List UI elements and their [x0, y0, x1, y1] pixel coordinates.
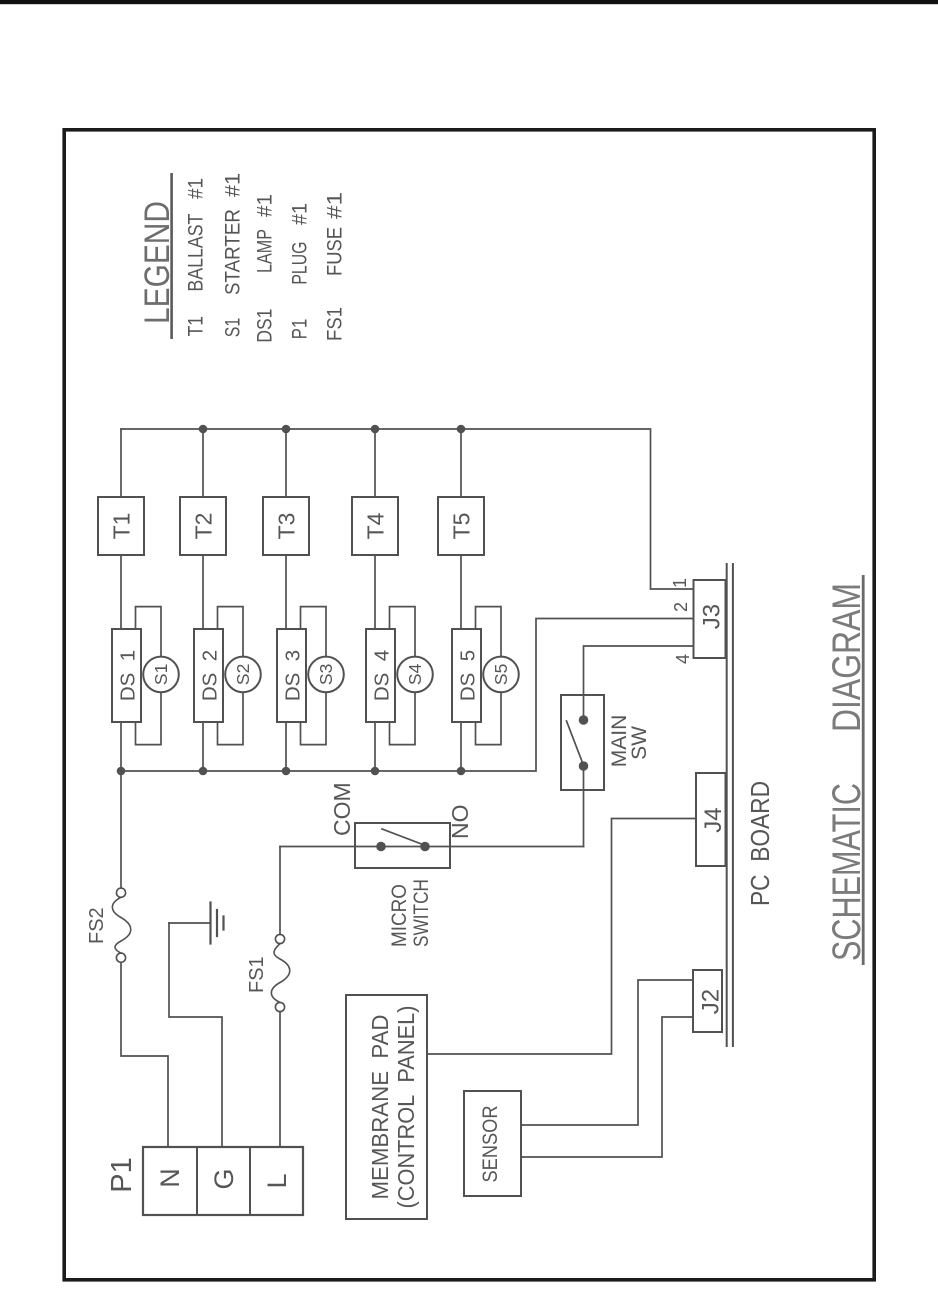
- junction left bus: [199, 767, 208, 776]
- scanner black bar: [0, 0, 938, 4]
- main sw contact left: [579, 761, 589, 771]
- svg-text:#1: #1: [289, 203, 312, 225]
- svg-text:DS 3: DS 3: [282, 650, 305, 701]
- svg-text:#1: #1: [185, 178, 208, 199]
- svg-text:SENSOR: SENSOR: [479, 1106, 502, 1183]
- svg-text:L: L: [262, 1173, 292, 1188]
- P1 divider N/G: [196, 1147, 198, 1215]
- svg-text:T1: T1: [185, 316, 208, 336]
- main sw contact right: [579, 715, 589, 725]
- svg-text:S3: S3: [316, 664, 336, 685]
- starter bracket right S2: [218, 607, 244, 657]
- svg-text:S1: S1: [151, 664, 171, 685]
- svg-text:FS1: FS1: [246, 956, 268, 993]
- junction left bus: [371, 767, 380, 776]
- junction left bus: [282, 767, 291, 776]
- membrane pad box: [346, 995, 427, 1219]
- wire branch row 4: [374, 429, 376, 771]
- wire bus to FS2: [120, 771, 122, 888]
- svg-text:SW: SW: [628, 726, 651, 760]
- svg-text:FUSE: FUSE: [324, 227, 347, 276]
- svg-text:2: 2: [671, 602, 691, 612]
- svg-text:STARTER: STARTER: [222, 209, 245, 295]
- svg-text:T4: T4: [363, 512, 389, 539]
- svg-text:MEMBRANE PAD: MEMBRANE PAD: [367, 1015, 393, 1200]
- svg-text:FS2: FS2: [86, 907, 108, 944]
- svg-text:BALLAST: BALLAST: [185, 213, 208, 291]
- svg-text:SWITCH: SWITCH: [410, 879, 433, 947]
- micro switch contact NO: [420, 842, 430, 852]
- svg-text:COM: COM: [329, 782, 355, 836]
- svg-text:DS1: DS1: [254, 309, 277, 343]
- starter bracket right S4: [390, 607, 416, 657]
- junction left bus: [457, 767, 466, 776]
- wire FS2 to P1-N: [121, 962, 168, 1147]
- svg-text:S1: S1: [222, 318, 245, 338]
- wire branch row 3: [285, 429, 287, 771]
- svg-text:DS 2: DS 2: [199, 650, 222, 701]
- lamp DS4: [366, 629, 395, 722]
- left bus to J3 pin 2: [121, 619, 694, 772]
- ballast T2: [180, 497, 226, 555]
- starter S1 circle: [143, 657, 179, 693]
- starter bracket left S2: [218, 692, 244, 744]
- junction right bus: [199, 425, 208, 434]
- wire branch row 1: [120, 429, 122, 771]
- starter bracket right S3: [301, 607, 327, 657]
- starter bracket right S1: [136, 607, 162, 657]
- svg-text:DS 1: DS 1: [117, 650, 140, 701]
- P1 divider G/L: [249, 1147, 251, 1215]
- svg-text:PC BOARD: PC BOARD: [745, 781, 775, 906]
- svg-text:T5: T5: [449, 513, 475, 540]
- micro switch box: [355, 823, 450, 868]
- starter bracket left S5: [476, 692, 502, 744]
- wire P1-G to ground: [169, 923, 222, 1147]
- plug P1 terminal block: [143, 1147, 303, 1215]
- junction left bus: [117, 767, 126, 776]
- starter bracket left S1: [136, 692, 162, 744]
- starter S4 circle: [397, 657, 433, 693]
- svg-text:T3: T3: [274, 513, 300, 540]
- svg-text:LAMP: LAMP: [254, 229, 277, 273]
- legend underline: [170, 173, 173, 339]
- ballast T4: [352, 497, 398, 555]
- svg-text:DS 5: DS 5: [457, 650, 480, 701]
- drawing border frame: [64, 130, 874, 1280]
- svg-text:NO: NO: [447, 805, 473, 840]
- wire micro NO to main sw: [583, 766, 585, 847]
- fuse FS2: [116, 888, 125, 897]
- svg-text:N: N: [155, 1168, 185, 1188]
- wire sensor to J2 pin 1: [521, 980, 693, 1125]
- starter bracket left S4: [390, 692, 416, 744]
- starter bracket right S5: [476, 607, 502, 657]
- svg-text:J2: J2: [698, 989, 725, 1014]
- svg-text:DS 4: DS 4: [371, 650, 394, 701]
- svg-text:FS1: FS1: [324, 307, 347, 341]
- wire branch row 2: [202, 429, 204, 771]
- starter S5 circle: [483, 657, 519, 693]
- wire COM through micro switch to main sw: [280, 846, 584, 848]
- right bus to J3 pin 1: [121, 429, 694, 589]
- wire P1-L to FS1: [279, 1012, 281, 1147]
- svg-text:P1: P1: [289, 319, 312, 340]
- junction right bus: [457, 425, 466, 434]
- starter S2 circle: [225, 657, 261, 693]
- svg-text:T2: T2: [191, 513, 217, 540]
- wire sensor to J2 pin 2: [521, 1017, 693, 1157]
- junction right bus: [371, 425, 380, 434]
- starter bracket left S3: [301, 692, 327, 744]
- wire FS1 to micro switch: [279, 847, 281, 935]
- main sw lever: [567, 721, 584, 764]
- PC board edge double line: [726, 564, 728, 1046]
- svg-text:P1: P1: [106, 1157, 138, 1192]
- svg-text:S4: S4: [405, 663, 425, 685]
- lamp DS3: [277, 629, 306, 722]
- lamp DS1: [112, 629, 141, 722]
- svg-text:(CONTROL PANEL): (CONTROL PANEL): [393, 1006, 419, 1209]
- connector J2: [693, 970, 722, 1032]
- micro switch lever: [382, 829, 424, 845]
- fuse FS1: [275, 1002, 284, 1011]
- svg-text:T1: T1: [109, 513, 135, 540]
- svg-text:PLUG: PLUG: [289, 242, 312, 285]
- starter S3 circle: [308, 657, 344, 693]
- svg-text:S2: S2: [233, 664, 253, 685]
- svg-text:#1: #1: [222, 173, 245, 197]
- wire main sw to J3 pin 4: [584, 646, 694, 720]
- connector J4: [696, 773, 726, 866]
- ground: [169, 922, 210, 924]
- sensor box: [464, 1091, 521, 1196]
- svg-text:4: 4: [673, 654, 693, 664]
- wire branch row 5: [460, 429, 462, 771]
- ballast T1: [98, 497, 144, 555]
- wire membrane pad to J4: [427, 819, 696, 1055]
- ballast T5: [438, 497, 484, 555]
- ballast T3: [263, 497, 309, 555]
- main switch box: [561, 695, 604, 790]
- connector J3: [694, 580, 726, 658]
- junction right bus: [282, 425, 291, 434]
- svg-text:G: G: [209, 1168, 239, 1189]
- svg-text:J3: J3: [699, 604, 726, 629]
- lamp DS5: [452, 629, 481, 722]
- micro switch contact COM: [376, 842, 386, 852]
- svg-text:1: 1: [670, 578, 690, 588]
- svg-text:S5: S5: [491, 664, 511, 685]
- svg-text:J4: J4: [700, 807, 727, 832]
- svg-text:#1: #1: [254, 194, 277, 217]
- svg-text:MICRO: MICRO: [388, 884, 411, 947]
- title underline: [862, 575, 865, 965]
- svg-text:#1: #1: [324, 192, 347, 219]
- lamp DS2: [194, 629, 223, 722]
